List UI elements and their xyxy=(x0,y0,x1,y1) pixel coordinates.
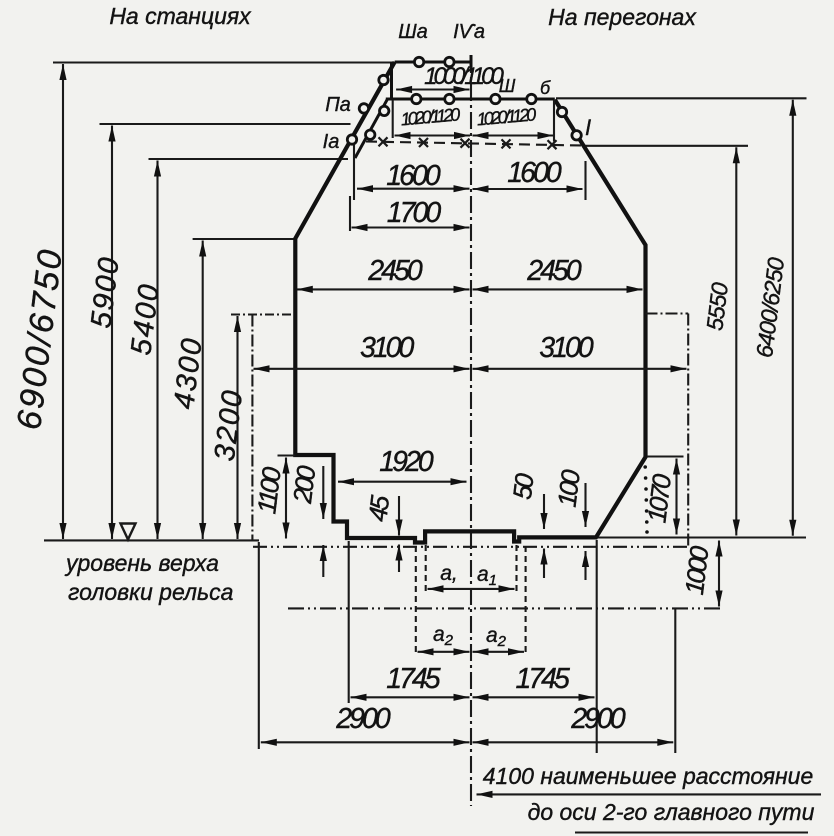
dim 2900 left xyxy=(261,703,470,742)
svg-text:На перегонах: На перегонах xyxy=(548,4,697,30)
svg-text:5400: 5400 xyxy=(125,281,166,357)
dim 45 xyxy=(362,493,399,572)
svg-text:а,: а, xyxy=(440,562,458,585)
center axis xyxy=(470,56,472,806)
rail level dashed under profile xyxy=(253,546,690,548)
dim 3200 xyxy=(209,316,250,539)
dim 1020/1120 right xyxy=(473,100,555,142)
svg-text:1000: 1000 xyxy=(679,544,715,597)
svg-text:6400/6250: 6400/6250 xyxy=(751,256,789,359)
dim 1600 left xyxy=(354,145,470,200)
axis top tick xyxy=(470,55,473,67)
dash-dot corner right xyxy=(646,314,689,548)
svg-text:На станциях: На станциях xyxy=(109,3,252,29)
svg-text:1000/1100: 1000/1100 xyxy=(424,63,504,90)
svg-text:50: 50 xyxy=(507,471,540,501)
svg-text:1020/1120: 1020/1120 xyxy=(400,104,461,129)
dim 6400/6250 xyxy=(751,100,793,536)
svg-text:1600: 1600 xyxy=(507,157,562,189)
svg-text:200: 200 xyxy=(287,464,322,506)
dim 1700 xyxy=(350,196,470,231)
svg-text:1070: 1070 xyxy=(641,472,677,525)
svg-text:1600: 1600 xyxy=(386,160,441,192)
svg-text:до оси 2-го главного пути: до оси 2-го главного пути xyxy=(528,799,815,825)
svg-text:1745: 1745 xyxy=(386,663,441,695)
dim 5400 xyxy=(125,161,166,540)
dim 50 xyxy=(507,471,544,578)
connector between pantograph lines xyxy=(390,62,393,99)
dotted corner cut line xyxy=(643,465,648,534)
dim a1 xyxy=(426,545,517,592)
svg-text:2450: 2450 xyxy=(526,255,582,287)
svg-text:І: І xyxy=(585,115,591,140)
dash-dot vertical left xyxy=(251,315,253,542)
svg-text:6900/6750: 6900/6750 xyxy=(10,245,70,431)
dim 3100 right xyxy=(473,332,687,369)
top reference line stations xyxy=(53,61,395,63)
svg-text:2450: 2450 xyxy=(367,255,423,287)
rail level line left xyxy=(44,539,259,541)
svg-text:1700: 1700 xyxy=(387,197,442,229)
svg-text:головки рельса: головки рельса xyxy=(68,579,233,605)
insulator circles top line xyxy=(414,57,423,66)
svg-text:а2: а2 xyxy=(486,624,507,650)
dim 5550 xyxy=(584,146,748,536)
dim 1020/1120 left xyxy=(393,100,470,138)
extension 1745 right xyxy=(596,540,598,753)
insulator circles second line xyxy=(412,94,421,103)
dim 1000/1100 xyxy=(396,63,504,90)
svg-text:3100: 3100 xyxy=(539,332,594,364)
level symbol xyxy=(121,524,136,540)
dim 6900/6750 xyxy=(10,64,70,539)
svg-text:ІѴа: ІѴа xyxy=(453,21,485,43)
svg-text:100: 100 xyxy=(552,468,586,509)
svg-text:а2: а2 xyxy=(433,623,454,649)
svg-text:5900: 5900 xyxy=(85,254,126,330)
dim 4300 xyxy=(168,241,209,540)
circles right slant xyxy=(557,107,566,116)
dim 1000 xyxy=(679,541,719,607)
svg-text:3200: 3200 xyxy=(209,387,250,463)
dim 1100 xyxy=(251,456,295,539)
dim 200 xyxy=(287,464,323,577)
dim 100 xyxy=(552,468,586,580)
dim 1745 left xyxy=(351,663,470,697)
svg-text:1020/1120: 1020/1120 xyxy=(476,104,537,129)
svg-text:Ш: Ш xyxy=(499,76,516,96)
circles left outer slant xyxy=(379,75,388,84)
3200 top tick dash-dot xyxy=(231,313,295,315)
rail level line right xyxy=(598,536,806,538)
dim 5900 xyxy=(85,126,126,540)
svg-text:б: б xyxy=(540,78,551,98)
pantograph top line xyxy=(395,61,472,64)
dim 1600 right xyxy=(473,157,586,200)
5400 top tick xyxy=(149,158,349,160)
dim 1745 right xyxy=(473,663,595,697)
4300 top tick xyxy=(193,238,295,240)
svg-text:а1: а1 xyxy=(477,563,497,589)
circles left inner slant xyxy=(380,106,389,115)
pantograph second line xyxy=(386,98,555,101)
svg-text:Іа: Іа xyxy=(323,131,340,153)
dim 1920 xyxy=(338,446,467,482)
svg-text:4100 наименьшее расстояние: 4100 наименьшее расстояние xyxy=(483,763,813,789)
svg-text:1745: 1745 xyxy=(515,663,570,695)
extension 2900 left xyxy=(258,542,260,749)
svg-text:2900: 2900 xyxy=(570,703,626,735)
dim 4100 note xyxy=(477,763,822,833)
x-marked dashed line xyxy=(366,137,582,149)
extension 1745 left xyxy=(348,541,350,703)
5900 top tick xyxy=(100,123,351,125)
dim 3100 left xyxy=(254,332,470,369)
lower reference dash line xyxy=(288,607,724,609)
svg-text:Па: Па xyxy=(325,94,351,116)
svg-text:5550: 5550 xyxy=(701,281,733,332)
extension 2900 right xyxy=(674,609,676,754)
svg-text:Ша: Ша xyxy=(398,21,428,43)
dim 1070 xyxy=(641,457,683,535)
dim 2450 left xyxy=(297,255,470,289)
svg-text:45: 45 xyxy=(362,493,395,523)
inner left slant xyxy=(355,99,388,158)
svg-text:1920: 1920 xyxy=(379,446,434,478)
dim 2450 right xyxy=(473,255,643,289)
dim a2 xyxy=(416,546,526,656)
gauge profile outline xyxy=(295,62,645,543)
dim 2900 right xyxy=(473,703,674,742)
svg-text:уровень верха: уровень верха xyxy=(64,550,219,576)
svg-text:1100: 1100 xyxy=(251,465,287,516)
svg-text:3100: 3100 xyxy=(360,332,415,364)
top reference line spans xyxy=(556,97,807,99)
svg-text:2900: 2900 xyxy=(335,703,391,735)
